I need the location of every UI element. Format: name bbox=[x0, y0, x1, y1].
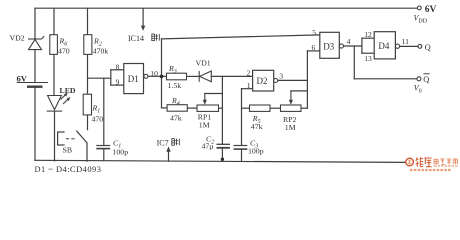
wire R6 to LED bbox=[53, 54, 55, 95]
wire RP2 to feedback vertical bbox=[301, 107, 307, 109]
wire D2 output bbox=[278, 79, 308, 81]
terminal 6V VDD bbox=[417, 6, 421, 10]
svg-text:100p: 100p bbox=[248, 147, 264, 156]
svg-text:1M: 1M bbox=[285, 123, 296, 132]
capacitor C2 bbox=[217, 144, 231, 148]
wire switch to ground rail bbox=[86, 143, 88, 161]
svg-text:47k: 47k bbox=[251, 122, 263, 131]
wire D4 input tie bar bbox=[361, 38, 363, 53]
svg-text:Q: Q bbox=[425, 43, 431, 52]
svg-text:11: 11 bbox=[402, 37, 410, 46]
svg-text:6: 6 bbox=[312, 43, 316, 52]
svg-text:5: 5 bbox=[312, 28, 316, 37]
push button SB bbox=[57, 131, 87, 145]
potentiometer RP1 wiper arrow bbox=[203, 94, 207, 105]
wire LED to ground rail bbox=[54, 111, 56, 161]
svg-text:13: 13 bbox=[364, 54, 372, 63]
wire D2/D3 feedback vertical bbox=[306, 51, 308, 108]
wire R5 to RP2 bbox=[270, 107, 281, 109]
potentiometer RP2 bbox=[281, 105, 302, 111]
glyph jiao (pin) for IC14 bbox=[152, 34, 160, 41]
zener diode VD2 bbox=[28, 36, 44, 50]
wire RP2 wiper horizontal bbox=[291, 90, 308, 92]
resistor R2 bbox=[84, 35, 92, 55]
svg-text:VDD: VDD bbox=[414, 14, 428, 25]
watermark tagline bbox=[410, 169, 451, 171]
svg-text:10: 10 bbox=[150, 69, 158, 78]
resistor R6 bbox=[50, 35, 58, 55]
svg-text:9: 9 bbox=[116, 78, 120, 87]
watermark secondary text bbox=[434, 159, 458, 165]
wire Qbar branch horizontal bbox=[354, 78, 417, 80]
wire R6 branch upper bbox=[53, 8, 55, 35]
wire RP1 to node B bbox=[219, 107, 223, 109]
watermark main text bbox=[416, 157, 432, 167]
svg-text:R1: R1 bbox=[92, 104, 101, 115]
potentiometer RP2 wiper arrow bbox=[289, 91, 293, 105]
wire R2 branch upper bbox=[87, 8, 89, 35]
LED bbox=[47, 92, 71, 111]
annotation arrow IC7 pin bbox=[166, 146, 170, 161]
wire D3 pin6 stub bbox=[307, 50, 319, 52]
op-gate D3 bbox=[320, 32, 340, 58]
annotation arrow IC14 pin bbox=[141, 8, 145, 31]
svg-text:2: 2 bbox=[247, 68, 251, 77]
capacitor C3 bbox=[234, 146, 248, 150]
svg-text:V0: V0 bbox=[414, 84, 422, 95]
svg-text:47μ: 47μ bbox=[202, 141, 214, 150]
wire R3 to VD1 bbox=[187, 75, 200, 77]
resistor R5 bbox=[250, 105, 271, 111]
svg-text:100p: 100p bbox=[113, 148, 129, 157]
wire RP1 wiper horizontal bbox=[205, 93, 223, 95]
svg-text:4: 4 bbox=[347, 37, 351, 46]
svg-text:470: 470 bbox=[58, 46, 70, 55]
svg-text:3: 3 bbox=[279, 72, 283, 81]
svg-text:6V: 6V bbox=[425, 5, 437, 15]
wire C1 drop bbox=[103, 78, 105, 145]
wire D4 pin12 stub bbox=[362, 37, 374, 39]
wire battery branch middle bbox=[34, 50, 36, 83]
wire D2 pin1 vertical bbox=[241, 89, 243, 146]
wire R2 to node / R1 bbox=[87, 54, 89, 94]
wire C2 to ground rail bbox=[221, 148, 223, 161]
wire D3 output to D4 inputs bbox=[343, 45, 362, 47]
wire battery branch upper bbox=[34, 8, 36, 39]
wire node to D1 inputs bbox=[88, 77, 111, 79]
wire node10 to D3 pin5 bbox=[162, 35, 320, 39]
svg-text:IC14: IC14 bbox=[128, 34, 144, 43]
watermark logo circle bbox=[406, 158, 414, 166]
wire D2 pin1 stub bbox=[242, 88, 253, 90]
battery GB 6V bbox=[17, 83, 48, 87]
potentiometer RP1 bbox=[197, 105, 219, 111]
svg-text:D4: D4 bbox=[378, 41, 389, 51]
wire D1 input tie bar bbox=[110, 70, 112, 85]
wire D1 output to node 10 bbox=[148, 75, 162, 77]
svg-text:Q: Q bbox=[423, 75, 429, 84]
wire C1 to ground rail bbox=[103, 149, 105, 161]
wire D4 output to Q terminal bbox=[400, 45, 418, 47]
wire R4 left stub bbox=[162, 107, 168, 109]
resistor R1 bbox=[83, 94, 91, 115]
svg-text:D3: D3 bbox=[323, 42, 334, 52]
watermark url line bbox=[434, 165, 458, 167]
svg-text:D1 ~ D4:CD4093: D1 ~ D4:CD4093 bbox=[35, 165, 102, 173]
svg-text:D2: D2 bbox=[257, 76, 268, 86]
wire R4 to RP1 bbox=[187, 107, 197, 109]
wire R5 left stub bbox=[242, 107, 250, 109]
svg-text:470: 470 bbox=[92, 115, 104, 124]
wire R1 to switch contact bbox=[87, 115, 89, 130]
op-gate D4 bbox=[374, 32, 395, 59]
resistor R4 bbox=[167, 105, 187, 112]
svg-text:6V: 6V bbox=[17, 73, 28, 83]
svg-text:47k: 47k bbox=[170, 113, 182, 122]
node 10 junction bbox=[160, 75, 164, 79]
svg-text:1.5k: 1.5k bbox=[168, 81, 182, 90]
wire VD1 to D2 pin2 bbox=[211, 75, 252, 77]
wire node B vertical bbox=[221, 76, 223, 144]
svg-text:470k: 470k bbox=[93, 46, 109, 55]
capacitor C1 bbox=[96, 146, 110, 149]
wire D4 pin13 stub bbox=[362, 52, 374, 54]
resistor R3 bbox=[167, 73, 187, 80]
svg-text:12: 12 bbox=[364, 30, 372, 39]
svg-text:1: 1 bbox=[247, 81, 251, 90]
terminal Qbar bbox=[417, 77, 421, 81]
wire D1 pin8 stub bbox=[111, 69, 124, 71]
wire Qbar branch vertical bbox=[353, 46, 355, 79]
svg-text:1M: 1M bbox=[199, 120, 210, 129]
op-gate D1 (NAND CD4093) bbox=[124, 64, 144, 94]
svg-text:VD1: VD1 bbox=[196, 58, 211, 67]
wire C3 to ground rail bbox=[241, 149, 243, 161]
junction C2 ground bbox=[221, 158, 224, 161]
wire D1 pin9 stub bbox=[111, 84, 124, 86]
svg-text:IC7: IC7 bbox=[157, 139, 169, 148]
op-gate D2 bbox=[253, 70, 274, 91]
svg-text:D1: D1 bbox=[128, 74, 139, 84]
svg-text:LED: LED bbox=[60, 86, 76, 95]
diode VD1 bbox=[199, 71, 211, 82]
wire bottom ground rail bbox=[35, 160, 408, 162]
wire top VDD rail bbox=[35, 7, 417, 9]
svg-text:8: 8 bbox=[116, 62, 120, 71]
terminal Q bbox=[418, 45, 422, 49]
glyph jiao (pin) for IC7 bbox=[172, 139, 180, 146]
svg-text:VD2: VD2 bbox=[10, 34, 25, 43]
svg-text:SB: SB bbox=[63, 146, 73, 155]
wire node10 vertical bbox=[161, 39, 163, 108]
wire battery branch lower bbox=[34, 87, 36, 161]
wire R3 left stub bbox=[162, 75, 167, 77]
